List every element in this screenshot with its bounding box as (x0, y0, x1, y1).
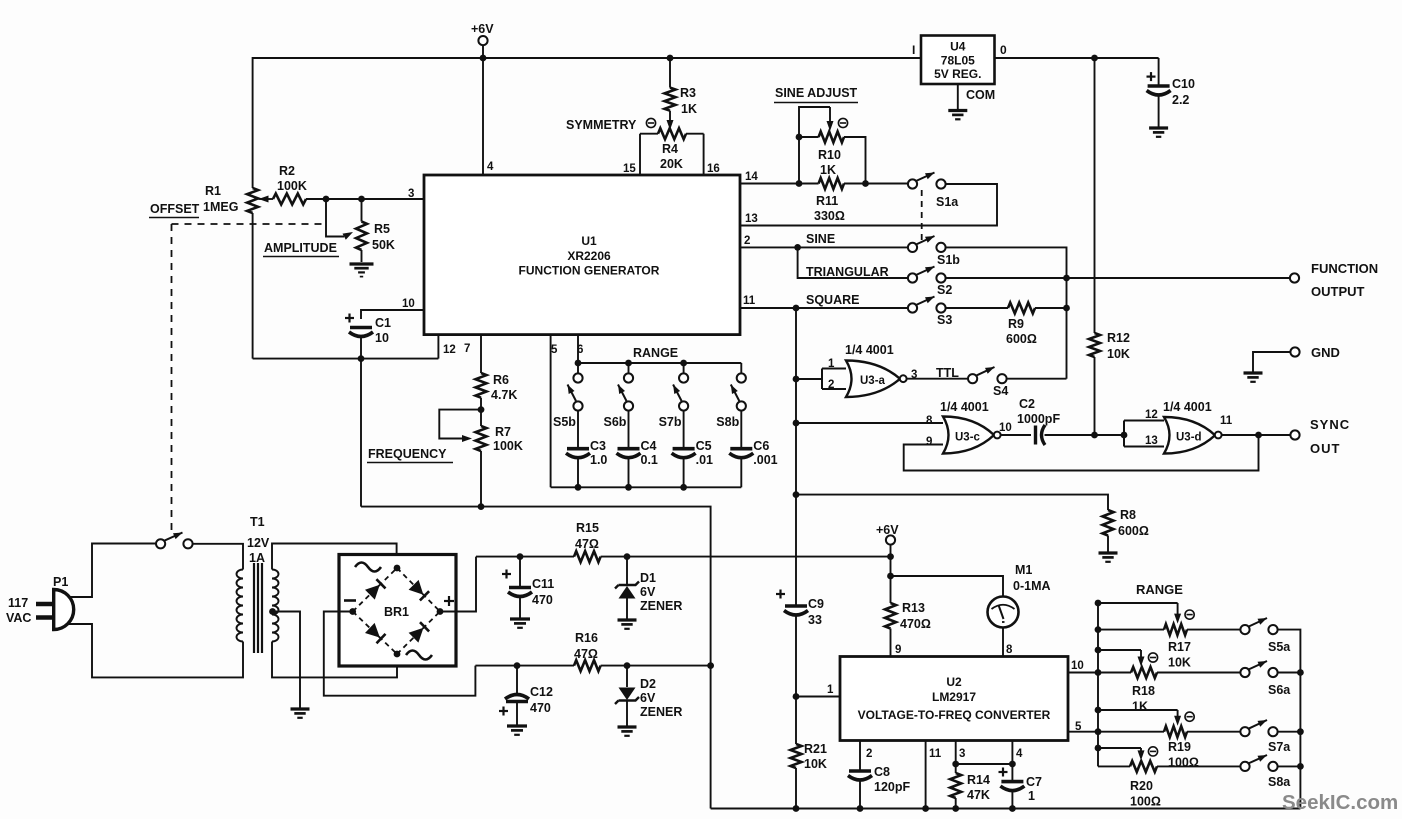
svg-text:C10: C10 (1172, 77, 1195, 91)
svg-text:6V: 6V (640, 585, 656, 599)
potentiometer R17 10K (1095, 600, 1102, 607)
wire - bottom ground rail (711, 808, 1301, 810)
wire - BR1 + to R15 row (440, 557, 476, 612)
svg-text:R13: R13 (902, 601, 925, 615)
wire - R10 left vertical / sine-adjust bracket (799, 107, 830, 184)
svg-text:1000pF: 1000pF (1017, 412, 1060, 426)
resistor R3 1K (669, 58, 671, 88)
wire - switch to T1 primary (193, 544, 243, 570)
svg-text:5: 5 (1075, 721, 1082, 733)
junction - R5 top (358, 196, 365, 203)
wire - U3-c output to C2 (1001, 434, 1031, 436)
svg-text:12V: 12V (247, 536, 270, 550)
junction - D1 top (624, 553, 631, 560)
svg-text:0.1: 0.1 (641, 453, 658, 467)
wire - pin 8 line (796, 422, 943, 424)
wire - BR1 - to R16 row (324, 612, 476, 696)
wire - pin 3 line (306, 198, 424, 200)
resistor R2 100K (259, 196, 269, 203)
capacitor C11 470 (519, 557, 521, 588)
ground - U4 COM (948, 109, 967, 112)
wire - S5a to right bus (1278, 630, 1301, 809)
wire - U3-d output to SYNC OUT (1222, 434, 1291, 436)
potentiometer R20 100&#937; (1095, 745, 1102, 752)
NOR gate U3-d 1/4 4001 (1164, 417, 1215, 454)
switch S6b (628, 363, 630, 373)
junction - R6/R7 (478, 406, 485, 413)
junction - R10/R11 left (796, 180, 803, 187)
svg-text:120pF: 120pF (874, 780, 910, 794)
svg-text:OFFSET: OFFSET (150, 202, 200, 216)
svg-text:33: 33 (808, 613, 822, 627)
node GND terminal (1290, 347, 1299, 356)
wire - R4 left end to pin 15 (639, 134, 641, 175)
svg-text:10: 10 (999, 422, 1012, 434)
capacitor C6 .001 (740, 411, 742, 449)
svg-text:S4: S4 (993, 384, 1008, 398)
switch S6a (1240, 668, 1249, 677)
svg-text:C9: C9 (808, 597, 824, 611)
switch S7a (1240, 727, 1249, 736)
junction - C12 top (514, 662, 521, 669)
svg-text:1/4 4001: 1/4 4001 (940, 400, 989, 414)
junction - U2 pin1 feed (793, 693, 800, 700)
switch S8a (1240, 762, 1249, 771)
svg-text:6V: 6V (640, 691, 656, 705)
switch S7b (683, 363, 685, 373)
svg-text:VAC: VAC (6, 611, 31, 625)
wire - U3-a output TTL (907, 378, 968, 380)
svg-text:8: 8 (926, 415, 933, 427)
svg-text:SQUARE: SQUARE (806, 293, 859, 307)
wire - pin 11 SQUARE line (740, 307, 908, 309)
zener diode D1 6V (626, 557, 628, 585)
svg-text:OUTPUT: OUTPUT (1311, 284, 1365, 299)
switch S8b (740, 363, 742, 373)
svg-text:3: 3 (408, 188, 414, 200)
potentiometer R1 1MEG (247, 188, 258, 213)
junction - right bus / output (1063, 275, 1070, 282)
resistor R11 330ohm (819, 178, 844, 189)
svg-text:9: 9 (895, 644, 901, 656)
svg-text:ZENER: ZENER (640, 705, 682, 719)
potentiometer R18 1K (1095, 647, 1102, 654)
junction - range bus col 3 (680, 360, 687, 367)
svg-text:C3: C3 (590, 439, 606, 453)
svg-text:TRIANGULAR: TRIANGULAR (806, 265, 889, 279)
svg-text:100K: 100K (493, 439, 523, 453)
ground - D2 (618, 725, 637, 728)
svg-text:1A: 1A (249, 551, 265, 565)
wire - square bus vertical (795, 308, 797, 606)
wire - pin 4 to C7 (1011, 741, 1013, 782)
meter M1 0-1MA (988, 597, 1019, 628)
ground - R8 (1099, 551, 1118, 554)
svg-text:47Ω: 47Ω (574, 647, 598, 661)
svg-text:AMPLITUDE: AMPLITUDE (264, 241, 337, 255)
svg-text:R12: R12 (1107, 331, 1130, 345)
svg-text:1: 1 (827, 684, 834, 696)
wire - pin 3 (955, 741, 957, 774)
svg-text:C4: C4 (641, 439, 657, 453)
switch S4 (968, 374, 977, 383)
svg-text:R5: R5 (374, 222, 390, 236)
svg-text:+6V: +6V (876, 523, 899, 537)
svg-text:GND: GND (1311, 345, 1340, 360)
wire - feedback loop to U3-c pin 9 (904, 435, 1259, 471)
svg-text:4: 4 (487, 161, 494, 173)
svg-text:50K: 50K (372, 238, 395, 252)
switch S3 (908, 303, 917, 312)
svg-text:1K: 1K (681, 102, 697, 116)
svg-text:10K: 10K (1107, 347, 1130, 361)
svg-text:C8: C8 (874, 765, 890, 779)
svg-text:10K: 10K (1168, 656, 1191, 670)
wire - pin 2 to C8 (859, 741, 861, 772)
wire - to U2 pin 1 (796, 696, 840, 698)
switch S2 (908, 273, 917, 282)
svg-text:R1: R1 (205, 184, 221, 198)
wire - R16 to common vertical (601, 665, 711, 667)
svg-text:SYNC: SYNC (1310, 417, 1350, 432)
svg-text:P1: P1 (53, 575, 68, 589)
svg-text:C12: C12 (530, 685, 553, 699)
wire - S2 to function output line (946, 277, 1290, 279)
svg-text:S2: S2 (937, 283, 952, 297)
wire - pin 12 stub (437, 335, 439, 359)
svg-text:C7: C7 (1026, 775, 1042, 789)
svg-text:S6b: S6b (604, 415, 627, 429)
wire - pin 2 SINE line (740, 246, 908, 248)
resistor R6 4.7K (476, 373, 487, 398)
svg-text:20K: 20K (660, 157, 683, 171)
resistor R9 600ohm (946, 307, 1008, 309)
node FUNCTION OUTPUT terminal (1290, 273, 1299, 282)
junction - R16 row to common vertical (707, 662, 714, 669)
wire - S7a to right bus (1278, 731, 1301, 733)
wire - pin 11 to rail (925, 741, 927, 809)
svg-text:3: 3 (911, 369, 917, 381)
svg-text:SINE: SINE (806, 232, 835, 246)
svg-text:S7b: S7b (659, 415, 682, 429)
junction - +6V branch to M1 (887, 573, 894, 580)
svg-text:R3: R3 (680, 86, 696, 100)
capacitor C5 .01 (683, 411, 685, 449)
svg-text:C5: C5 (696, 439, 712, 453)
junction - D2 top (624, 662, 631, 669)
svg-text:R11: R11 (816, 194, 838, 208)
svg-text:2: 2 (866, 748, 872, 760)
svg-text:2: 2 (744, 235, 750, 247)
svg-text:RANGE: RANGE (633, 346, 678, 360)
potentiometer R10 1K (799, 136, 819, 138)
svg-text:S7a: S7a (1268, 740, 1291, 754)
junction - row1 feed (1095, 626, 1102, 633)
svg-text:12: 12 (1145, 409, 1158, 421)
wire - secondary top to BR1 (272, 544, 397, 570)
svg-text:.001: .001 (753, 453, 777, 467)
wire - to meter M1 (891, 576, 1004, 597)
svg-text:C1: C1 (375, 316, 391, 330)
switch S5b (577, 363, 579, 373)
mechanical dashed link - OFFSET pot to power switch and amplitude (172, 223, 326, 225)
svg-text:47Ω: 47Ω (575, 537, 599, 551)
wire - S4 to right bus (1007, 378, 1067, 380)
junction - U3-a feed (793, 376, 800, 383)
svg-text:S8b: S8b (716, 415, 739, 429)
svg-text:S1a: S1a (936, 195, 959, 209)
svg-text:R18: R18 (1132, 684, 1155, 698)
junction - U3-d bracket (1121, 432, 1128, 439)
svg-text:SINE ADJUST: SINE ADJUST (775, 86, 858, 100)
svg-text:U3-d: U3-d (1176, 432, 1202, 444)
svg-text:11: 11 (743, 295, 756, 307)
junction - BR1 vertices (394, 565, 401, 572)
junction - C11 top (517, 553, 524, 560)
junction - C1/bottom rail (358, 355, 365, 362)
wire - left rail down from top to R1 (253, 58, 254, 188)
wire - R7 wiper loop (439, 410, 481, 439)
resistor R16 47ohm (574, 660, 601, 671)
junction - feedback tap (1255, 432, 1262, 439)
svg-text:C6: C6 (753, 439, 769, 453)
svg-text:C11: C11 (532, 577, 554, 591)
svg-text:R2: R2 (279, 164, 295, 178)
junction - R5 wiper feed (323, 196, 330, 203)
wire - secondary bottom to BR1 bottom (272, 642, 397, 678)
svg-text:XR2206: XR2206 (567, 249, 611, 263)
potentiometer R5 50K (361, 199, 363, 222)
svg-text:R9: R9 (1008, 317, 1024, 331)
svg-text:1K: 1K (1132, 700, 1148, 714)
resistor R21 10K (791, 744, 802, 768)
junction - pin3/pin4 link (952, 761, 959, 768)
svg-text:13: 13 (1145, 435, 1158, 447)
resistor R8 600ohm (1103, 510, 1114, 536)
mechanical dashed link S1a-S1b (921, 190, 923, 240)
svg-text:FUNCTION: FUNCTION (1311, 261, 1378, 276)
svg-text:10: 10 (402, 298, 415, 310)
potentiometer R7 100K (476, 426, 487, 451)
resistor R13 470ohm (890, 576, 892, 603)
wire - cap bottom bus (551, 486, 742, 488)
svg-text:470: 470 (532, 593, 553, 607)
svg-text:U1: U1 (581, 234, 597, 248)
wire - C2 to U3-d (1045, 434, 1125, 436)
svg-text:600Ω: 600Ω (1118, 524, 1149, 538)
svg-text:12: 12 (443, 344, 456, 356)
svg-text:S5b: S5b (553, 415, 576, 429)
wire - S1b to right bus (946, 247, 1067, 378)
svg-text:470: 470 (530, 701, 551, 715)
svg-text:R19: R19 (1168, 740, 1191, 754)
svg-text:R21: R21 (804, 742, 827, 756)
svg-text:T1: T1 (250, 515, 265, 529)
zener diode D2 6V (626, 666, 628, 687)
svg-text:1: 1 (828, 358, 835, 370)
potentiometer R4 20K (640, 133, 658, 135)
junction - cap bottom bus (625, 484, 632, 491)
svg-text:6: 6 (577, 344, 583, 356)
junction - row2 feed (1095, 669, 1102, 676)
svg-text:4: 4 (1016, 748, 1023, 760)
potentiometer R19 100&#937; (1095, 707, 1102, 714)
svg-text:0-1MA: 0-1MA (1013, 579, 1051, 593)
svg-text:S3: S3 (937, 313, 952, 327)
capacitor C1 10 (345, 317, 354, 319)
wire - R16 row (475, 665, 574, 667)
svg-text:R20: R20 (1130, 779, 1153, 793)
svg-text:4.7K: 4.7K (491, 388, 517, 402)
svg-text:0: 0 (1000, 43, 1007, 57)
ground - GND terminal (1244, 371, 1263, 374)
capacitor C2 1000pF (1034, 426, 1037, 445)
wire - U4 COM pin (957, 84, 959, 111)
ground - C10 (1149, 126, 1168, 129)
svg-text:5: 5 (551, 344, 558, 356)
node +6V supply terminal (top) (478, 36, 487, 45)
wire - common vertical from C1 rail to bottom rail (361, 507, 711, 809)
junction - R9 to right bus (1063, 305, 1070, 312)
resistor R15 47ohm (574, 551, 601, 562)
wire - pin 4 drop to U1 (482, 58, 484, 175)
svg-text:S5a: S5a (1268, 640, 1291, 654)
svg-text:100Ω: 100Ω (1168, 756, 1199, 770)
svg-text:COM: COM (966, 88, 995, 102)
junction - S6a to right bus (1278, 672, 1301, 674)
junction - secondary center tap (269, 608, 276, 615)
node SYNC OUT terminal (1290, 430, 1299, 439)
svg-text:U2: U2 (946, 675, 962, 689)
svg-text:100Ω: 100Ω (1130, 795, 1161, 809)
wire - pin 6 to range bus (577, 335, 579, 363)
junction - R21 to ground rail (793, 805, 800, 812)
svg-text:1MEG: 1MEG (203, 200, 238, 214)
svg-text:2: 2 (828, 379, 834, 391)
resistor R14 47K (950, 773, 961, 798)
wire - R4 right end to pin 16 (703, 134, 705, 175)
wire - range pot feed bus (1097, 603, 1099, 766)
wire - R5 wiper (326, 199, 344, 237)
NOR gate U3-a 1/4 4001 (846, 361, 900, 398)
svg-text:R4: R4 (662, 142, 678, 156)
svg-text:R16: R16 (575, 631, 598, 645)
svg-text:14: 14 (745, 171, 758, 183)
junction - rail to R3 (667, 55, 674, 62)
svg-text:RANGE: RANGE (1136, 582, 1183, 597)
junction - +6V to R15 row (887, 553, 894, 560)
wire - R15 row (476, 556, 574, 558)
svg-text:VOLTAGE-TO-FREQ CONVERTER: VOLTAGE-TO-FREQ CONVERTER (858, 708, 1051, 722)
svg-text:C2: C2 (1019, 397, 1035, 411)
svg-text:11: 11 (929, 748, 942, 760)
svg-text:FREQUENCY: FREQUENCY (368, 447, 447, 461)
diode - BR1 top-left (365, 585, 380, 600)
junction - cap bottom bus (680, 484, 687, 491)
junction - rail to R12 (1091, 55, 1098, 62)
svg-text:5V REG.: 5V REG. (934, 67, 981, 81)
svg-text:R17: R17 (1168, 640, 1191, 654)
svg-text:1/4 4001: 1/4 4001 (845, 343, 894, 357)
svg-text:S1b: S1b (937, 253, 960, 267)
svg-text:1.0: 1.0 (590, 453, 607, 467)
wire - S8a to right bus (1278, 765, 1301, 767)
svg-text:I: I (912, 43, 915, 57)
svg-text:16: 16 (707, 163, 720, 175)
svg-text:U4: U4 (950, 40, 966, 54)
svg-text:U3-a: U3-a (860, 375, 886, 387)
node +6V terminal (lower) (886, 535, 895, 544)
svg-text:8: 8 (1006, 644, 1013, 656)
wire - top +6V rail (254, 57, 921, 59)
svg-text:OUT: OUT (1310, 441, 1340, 456)
resistor R12 10K (1094, 58, 1096, 333)
junction - R7 bottom on common (478, 503, 485, 510)
svg-text:100K: 100K (277, 179, 307, 193)
svg-text:R7: R7 (495, 425, 511, 439)
ground - D1 (618, 618, 637, 621)
wire - M1 to U2 pin 8 (1002, 628, 1004, 657)
svg-text:7: 7 (464, 343, 470, 355)
wire - U2 pin 5 line (1068, 731, 1098, 733)
svg-text:11: 11 (1220, 415, 1233, 427)
svg-text:ZENER: ZENER (640, 599, 682, 613)
svg-text:R8: R8 (1120, 508, 1136, 522)
capacitor C12 470 (516, 666, 518, 695)
wire - U3-a input bracket (796, 378, 822, 380)
svg-text:U3-c: U3-c (955, 432, 981, 444)
svg-text:1K: 1K (820, 163, 836, 177)
IC U2 LM2917 voltage-to-freq converter (840, 657, 1068, 741)
junction - range bus col 1 (575, 360, 582, 367)
svg-text:10: 10 (1071, 660, 1084, 672)
switch S5a (1240, 625, 1249, 634)
svg-text:FUNCTION GENERATOR: FUNCTION GENERATOR (519, 264, 660, 278)
svg-text:S6a: S6a (1268, 683, 1291, 697)
svg-text:TTL: TTL (936, 366, 959, 380)
junction - sine branch (794, 244, 801, 251)
switch S1a (908, 179, 917, 188)
wire - center tap to ground (273, 612, 301, 710)
svg-text:1/4 4001: 1/4 4001 (1163, 400, 1212, 414)
wire - branch down to triangular row (798, 247, 908, 278)
svg-text:LM2917: LM2917 (932, 690, 976, 704)
svg-text:R6: R6 (493, 373, 509, 387)
wire - R8 feed (796, 495, 1108, 510)
svg-text:D1: D1 (640, 571, 656, 585)
svg-text:M1: M1 (1015, 563, 1032, 577)
ground - R5 (350, 262, 374, 265)
capacitor C4 0.1 (628, 411, 630, 449)
svg-text:13: 13 (745, 213, 758, 225)
svg-text:R15: R15 (576, 521, 599, 535)
switch - power on/off (ganged to OFFSET) (156, 539, 165, 548)
svg-text:2.2: 2.2 (1172, 93, 1189, 107)
wire - U3-d input bracket (1123, 421, 1125, 447)
wire - bottom rail R1 to pin 12 (253, 358, 439, 360)
IC U1 XR2206 function generator (424, 175, 740, 335)
wire - pin 5 down to cap bus (550, 335, 552, 488)
svg-text:SeekIC.com: SeekIC.com (1282, 791, 1398, 814)
wire - range top bus (578, 362, 741, 364)
wire - pin 7 stub (480, 335, 482, 373)
svg-text:600Ω: 600Ω (1006, 332, 1037, 346)
svg-text:1: 1 (1028, 789, 1035, 803)
svg-text:9: 9 (926, 436, 932, 448)
svg-text:+6V: +6V (471, 22, 494, 36)
junction - R12 bottom (1091, 432, 1098, 439)
bridge rectifier BR1 (339, 555, 456, 667)
